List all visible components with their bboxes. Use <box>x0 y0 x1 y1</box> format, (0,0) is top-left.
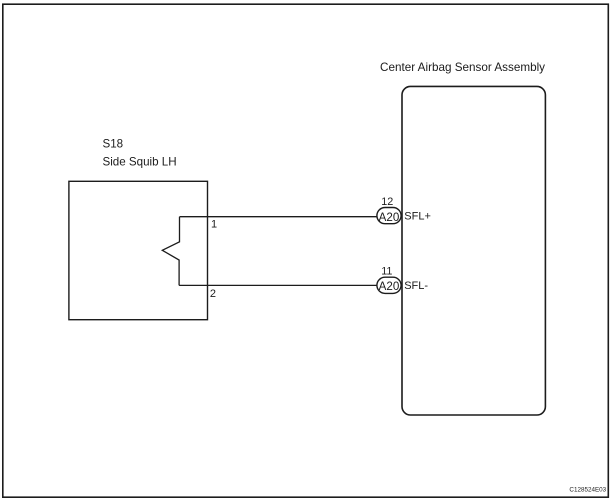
svg-text:A20: A20 <box>379 211 400 224</box>
svg-text:Side Squib LH: Side Squib LH <box>103 156 177 169</box>
wire: squib pin 1 to A20-12 (SFL+) <box>180 216 379 218</box>
svg-text:1: 1 <box>211 219 217 231</box>
svg-text:12: 12 <box>381 196 393 208</box>
wire: squib pin 2 to A20-11 (SFL-) <box>179 284 378 286</box>
connector S18 box <box>69 181 208 319</box>
svg-text:C128524E03: C128524E03 <box>569 487 606 494</box>
svg-text:A20: A20 <box>379 280 400 293</box>
connector A20 (pin 11) <box>377 277 401 293</box>
squib element S18 (ignition squib symbol) <box>162 217 179 286</box>
connector A20 (pin 12) <box>377 208 401 224</box>
svg-text:11: 11 <box>381 266 392 278</box>
svg-text:Center Airbag Sensor Assembly: Center Airbag Sensor Assembly <box>380 61 545 74</box>
svg-text:2: 2 <box>210 288 216 300</box>
center airbag sensor assembly block <box>402 86 545 415</box>
svg-text:SFL+: SFL+ <box>404 211 431 223</box>
svg-text:S18: S18 <box>103 138 124 151</box>
svg-text:SFL-: SFL- <box>404 280 428 292</box>
